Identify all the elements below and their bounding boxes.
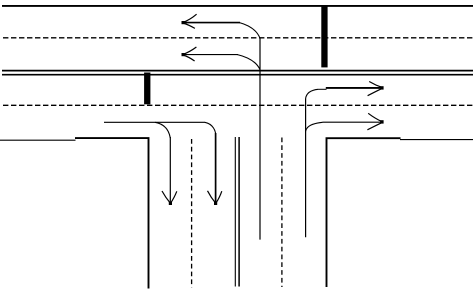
south-turn shaft west xyxy=(169,137,171,203)
left-turn shaft lower xyxy=(184,54,239,56)
arrow tip left-upper xyxy=(182,21,185,24)
left curb thin xyxy=(0,139,76,141)
double center line upper xyxy=(2,70,473,72)
arrow tip left-lower xyxy=(182,53,185,56)
top road north edge xyxy=(2,5,473,7)
arrowhead right-lower barbs xyxy=(368,113,382,121)
arrowhead down-east barbs xyxy=(208,191,216,203)
left-turn curve upper xyxy=(240,23,261,39)
double vertical line right stroke xyxy=(238,137,240,287)
dashed lane line south xyxy=(3,104,473,106)
left curb corner xyxy=(75,138,149,288)
double center line lower xyxy=(2,74,473,76)
dashed vertical lane line west xyxy=(191,139,193,288)
right-turn shaft upper thin xyxy=(318,88,327,90)
right curb thin xyxy=(400,139,473,141)
south-turn curve east xyxy=(205,122,216,133)
right-turn shaft lower xyxy=(323,121,382,123)
arrowhead right-upper barbs xyxy=(369,82,382,88)
right-turn shaft upper thick xyxy=(326,87,382,89)
double vertical line left stroke xyxy=(234,137,236,287)
stop bar east approach xyxy=(321,5,327,67)
right curb corner xyxy=(327,138,401,287)
left-turn curve lower xyxy=(238,55,261,70)
arrowhead lower-left barbs xyxy=(183,47,196,54)
dashed lane line north xyxy=(3,37,473,39)
arrow tip down-east xyxy=(214,202,217,205)
arrowhead upper-left barbs xyxy=(183,14,197,22)
left-turn shaft upper xyxy=(184,22,241,24)
right-turn path stem xyxy=(305,99,307,238)
south-turn curve west xyxy=(155,122,170,138)
arrow tip right-lower xyxy=(380,120,383,123)
left-turn path stem xyxy=(259,38,261,239)
right-turn curve upper xyxy=(306,89,318,98)
south-turn rail xyxy=(104,121,205,123)
right-turn curve lower xyxy=(306,122,323,131)
arrow tip down-west xyxy=(169,202,172,205)
dashed vertical lane line east xyxy=(281,138,283,288)
arrow tip right-upper xyxy=(380,86,383,89)
arrowhead down-west barbs xyxy=(162,191,170,203)
stop bar west approach xyxy=(144,73,150,105)
south-turn shaft east xyxy=(215,133,217,203)
